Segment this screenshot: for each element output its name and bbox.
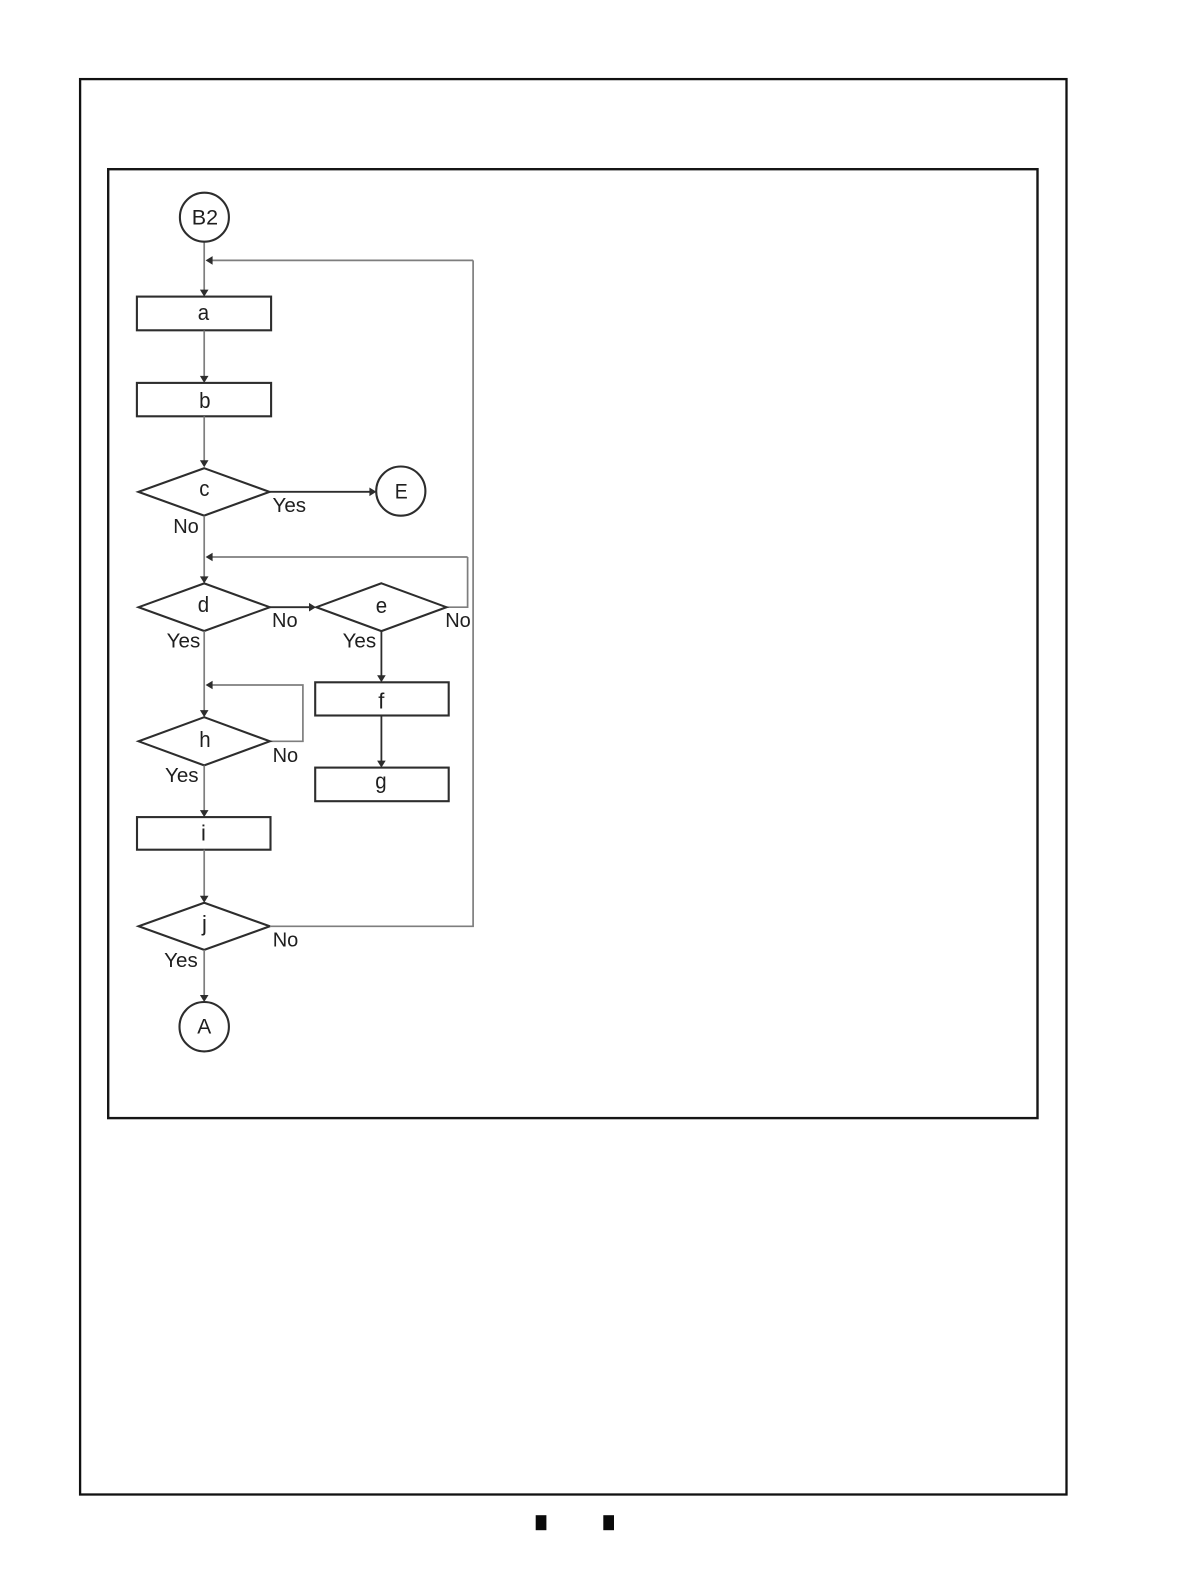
connector b to c bbox=[203, 416, 205, 460]
svg-text:i: i bbox=[201, 821, 206, 846]
svg-text:No: No bbox=[273, 930, 299, 952]
svg-text:No: No bbox=[272, 610, 298, 632]
wire e-loop vertical bbox=[446, 557, 467, 607]
connector B2 to a bbox=[203, 242, 205, 290]
connector h to i bbox=[203, 766, 205, 811]
connector f to g bbox=[380, 716, 382, 762]
terminator E bbox=[376, 467, 425, 516]
connector a to b bbox=[203, 331, 205, 377]
svg-text:No: No bbox=[273, 745, 299, 767]
decision diamond e bbox=[316, 583, 446, 631]
decision diamond c bbox=[138, 468, 269, 515]
connector d to h bbox=[203, 631, 205, 711]
wire feedback top into junction bbox=[212, 259, 473, 261]
connector c to E bbox=[270, 491, 370, 493]
svg-text:A: A bbox=[197, 1014, 212, 1038]
process box a bbox=[137, 297, 271, 331]
svg-text:h: h bbox=[199, 727, 210, 752]
terminator A bbox=[180, 1002, 229, 1051]
process box b bbox=[137, 383, 271, 416]
svg-text:B2: B2 bbox=[192, 206, 218, 230]
connector d to e bbox=[270, 606, 310, 608]
svg-text:No: No bbox=[445, 610, 471, 632]
connector i to j bbox=[203, 850, 205, 897]
connector e to f bbox=[380, 631, 382, 676]
figure panel bbox=[108, 169, 1037, 1118]
svg-text:No: No bbox=[173, 516, 199, 538]
svg-text:Yes: Yes bbox=[343, 630, 377, 652]
process box g bbox=[315, 768, 449, 802]
connector j to A bbox=[203, 950, 205, 996]
wire e-loop horizontal into junction bbox=[212, 556, 467, 558]
decision diamond d bbox=[139, 583, 270, 631]
footer tofu glyph 2 bbox=[603, 1515, 614, 1530]
svg-text:e: e bbox=[376, 593, 387, 618]
svg-text:Yes: Yes bbox=[273, 495, 307, 517]
svg-text:Yes: Yes bbox=[165, 765, 199, 787]
svg-text:Yes: Yes bbox=[167, 630, 201, 652]
svg-text:d: d bbox=[198, 592, 209, 617]
footer tofu glyph 1 bbox=[536, 1515, 547, 1530]
page frame bbox=[80, 79, 1066, 1494]
svg-text:E: E bbox=[395, 480, 408, 504]
svg-text:j: j bbox=[201, 911, 207, 936]
svg-text:g: g bbox=[375, 768, 386, 793]
terminator B2 bbox=[180, 193, 229, 242]
svg-text:f: f bbox=[378, 688, 385, 713]
svg-text:a: a bbox=[198, 300, 210, 325]
decision diamond j bbox=[139, 903, 270, 950]
decision diamond h bbox=[139, 717, 270, 765]
process box f bbox=[315, 682, 449, 715]
wire h-loop bbox=[212, 685, 303, 741]
connector c to d bbox=[203, 516, 205, 577]
svg-text:Yes: Yes bbox=[164, 950, 198, 972]
process box i bbox=[137, 817, 271, 850]
svg-text:b: b bbox=[199, 388, 210, 413]
svg-text:c: c bbox=[199, 476, 209, 501]
wire j-No loop to top bbox=[270, 260, 473, 926]
